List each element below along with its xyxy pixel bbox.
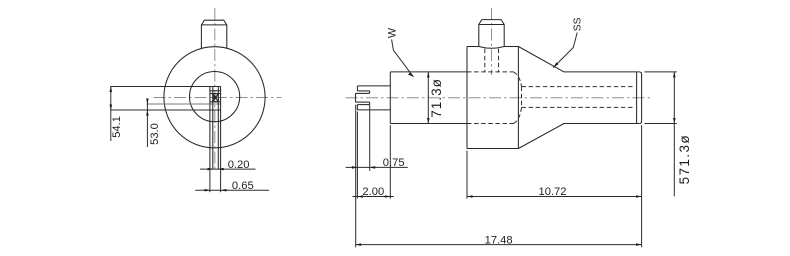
body outer circle bbox=[164, 47, 265, 148]
centerline horizontal (front view) bbox=[154, 97, 282, 99]
svg-text:71.3ø: 71.3ø bbox=[429, 78, 444, 118]
centerline vertical (front view) bbox=[214, 8, 216, 169]
extension line bottom of 1.45 / 0.35 bbox=[110, 109, 221, 111]
svg-text:2.00: 2.00 bbox=[362, 186, 384, 198]
dimension d3.17 bbox=[427, 72, 429, 124]
svg-text:0.65: 0.65 bbox=[232, 180, 254, 192]
contact tip outer profile bbox=[357, 85, 390, 87]
contact tip groove lines bbox=[357, 90, 369, 92]
key tab (front view) bbox=[201, 20, 226, 48]
centerline horizontal (side view) bbox=[346, 97, 653, 99]
dimension 10.72 bbox=[467, 196, 642, 198]
hidden bore through taper and rear cylinder bbox=[522, 86, 635, 88]
dimension 17.48 bbox=[356, 244, 642, 246]
svg-text:17.48: 17.48 bbox=[485, 234, 513, 246]
tab base curve bbox=[479, 47, 504, 49]
svg-text:0.20: 0.20 bbox=[228, 159, 250, 171]
dimension 0.20 bbox=[200, 168, 256, 170]
hidden cavity in body bbox=[467, 71, 514, 73]
svg-text:53.0: 53.0 bbox=[149, 123, 161, 145]
dimension d3.175 bbox=[645, 71, 677, 73]
extension line top of 1.45 bbox=[110, 86, 221, 88]
dimension 0.65 bbox=[195, 189, 269, 191]
groove right steps bbox=[369, 91, 371, 94]
dimension 0.75 bbox=[346, 166, 408, 168]
svg-text:54.1: 54.1 bbox=[111, 116, 123, 138]
svg-text:SS: SS bbox=[572, 17, 583, 31]
svg-text:W: W bbox=[387, 27, 399, 38]
extension lines down to 0.65 dimension bbox=[209, 169, 211, 192]
insulator cylinder d3.17 bbox=[389, 72, 391, 124]
rear chamfer line bbox=[636, 72, 638, 123]
center contact square with cross bbox=[213, 94, 219, 102]
svg-text:571.3ø: 571.3ø bbox=[677, 134, 692, 184]
pin vertical edges bbox=[209, 87, 211, 170]
pin hub horizontal edges bbox=[210, 90, 221, 92]
contact tip nose face bbox=[355, 93, 357, 102]
taper cone bbox=[518, 47, 564, 72]
dimension 2.00 bbox=[353, 196, 394, 198]
dimension 1.45 bbox=[110, 87, 112, 142]
svg-text:0.75: 0.75 bbox=[383, 157, 405, 169]
body block bbox=[466, 47, 468, 149]
key tab (side view) bbox=[479, 20, 504, 47]
hidden hole under tab bbox=[484, 49, 486, 72]
svg-text:10.72: 10.72 bbox=[539, 186, 567, 198]
dimension 0.35 bbox=[146, 98, 148, 147]
centerline vertical above tab (side view) bbox=[491, 8, 493, 75]
extension line top of 0.35 bbox=[147, 103, 221, 105]
extension lines bottom dims bbox=[355, 105, 357, 248]
body inner circle bbox=[190, 72, 240, 122]
rear cylinder d3.175 bbox=[564, 71, 639, 73]
